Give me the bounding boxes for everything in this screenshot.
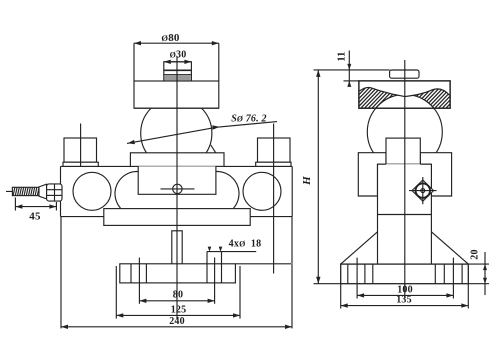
dimension 45: [15, 198, 56, 223]
right wing: [420, 153, 451, 196]
dimension 80: [139, 290, 214, 303]
ball right view: [367, 95, 442, 170]
block top extension: [235, 263, 291, 265]
svg-text:80: 80: [173, 290, 183, 301]
loading cap: [164, 62, 192, 81]
dimension H: [301, 70, 341, 284]
svg-text:125: 125: [171, 304, 187, 315]
dimension 20: [468, 249, 489, 295]
top extension line: [314, 69, 390, 71]
svg-text:4xØ 18: 4xØ 18: [229, 239, 262, 250]
svg-text:45: 45: [29, 211, 41, 223]
svg-text:Ø30: Ø30: [170, 50, 187, 61]
centerline right view: [404, 60, 406, 298]
dimension 125: [116, 266, 240, 319]
left bolt stub line: [80, 124, 82, 167]
top bearing plate hatched: [292, 79, 500, 170]
cable gland nut: [409, 177, 437, 204]
bottom block: [120, 252, 236, 283]
beam right edge lower: [291, 217, 293, 264]
skirt: [341, 232, 469, 264]
stem: [172, 231, 182, 264]
svg-text:135: 135: [396, 295, 412, 306]
svg-text:11: 11: [337, 52, 348, 62]
dimension Ø80: [134, 32, 219, 81]
ball S76.2: [141, 98, 212, 169]
label 4xØ18: [207, 239, 261, 252]
saddle block: [138, 166, 216, 194]
right bolt line: [273, 124, 275, 274]
base plate: [104, 209, 250, 226]
svg-text:20: 20: [470, 249, 481, 259]
left end block: [63, 138, 98, 166]
dimension 100: [357, 284, 453, 297]
leader S Ø76.2: [127, 113, 277, 144]
mounting base plate: [341, 264, 469, 284]
100 extension lines: [357, 258, 453, 299]
cable connector: [6, 184, 62, 201]
saddle flange chamfer: [211, 145, 216, 153]
right hole circle: [243, 172, 281, 210]
cap right view: [390, 70, 419, 78]
left wing: [358, 153, 386, 196]
beam outline: [61, 166, 293, 216]
left hump arc: [115, 172, 138, 209]
column: [378, 164, 432, 264]
svg-text:SØ 76. 2: SØ 76. 2: [231, 113, 266, 124]
dimension 135: [341, 284, 469, 309]
svg-text:H: H: [301, 176, 313, 186]
left hole circle: [73, 172, 111, 210]
top plate: [134, 81, 219, 108]
dimension 240: [61, 217, 292, 329]
pedestal top block: [386, 138, 420, 164]
right hump arc: [216, 172, 239, 209]
right end block: [256, 138, 291, 166]
dimension Ø30: [164, 50, 192, 64]
svg-text:Ø80: Ø80: [161, 32, 180, 44]
dimension 11: [337, 51, 359, 87]
saddle flange: [130, 153, 224, 167]
hole centerlines: [139, 258, 214, 304]
beam top edge: [61, 165, 293, 167]
centerline left view: [176, 56, 178, 319]
center hole: [161, 184, 195, 193]
